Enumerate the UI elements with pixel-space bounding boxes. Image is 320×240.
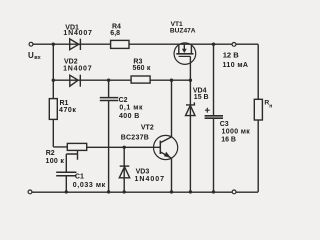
svg-text:12 В: 12 В bbox=[223, 51, 240, 60]
svg-text:C1: C1 bbox=[75, 174, 84, 181]
svg-text:110 мА: 110 мА bbox=[223, 62, 249, 69]
svg-text:VT2: VT2 bbox=[141, 124, 154, 131]
svg-text:вх: вх bbox=[34, 55, 41, 61]
svg-text:1N4007: 1N4007 bbox=[63, 30, 92, 37]
svg-text:C2: C2 bbox=[119, 97, 128, 104]
svg-text:1N4007: 1N4007 bbox=[63, 65, 92, 72]
svg-text:R2: R2 bbox=[46, 150, 55, 157]
svg-text:VD3: VD3 bbox=[136, 169, 150, 176]
svg-text:470к: 470к bbox=[59, 107, 76, 114]
svg-text:16 В: 16 В bbox=[221, 136, 236, 143]
svg-text:100 к: 100 к bbox=[46, 158, 65, 165]
svg-text:15 В: 15 В bbox=[194, 94, 209, 101]
svg-text:BUZ47A: BUZ47A bbox=[170, 27, 196, 34]
svg-text:1000 мк: 1000 мк bbox=[222, 129, 251, 136]
svg-text:BC237B: BC237B bbox=[121, 135, 149, 142]
svg-text:400 В: 400 В bbox=[119, 113, 140, 120]
svg-text:6,8: 6,8 bbox=[110, 30, 120, 37]
svg-text:U: U bbox=[28, 51, 34, 60]
svg-text:560 к: 560 к bbox=[133, 65, 151, 72]
svg-text:1N4007: 1N4007 bbox=[135, 176, 166, 183]
svg-text:R1: R1 bbox=[60, 100, 69, 107]
svg-text:C3: C3 bbox=[220, 121, 229, 128]
svg-text:н: н bbox=[269, 103, 272, 109]
svg-text:0,033 мк: 0,033 мк bbox=[73, 182, 106, 189]
svg-text:0,1 мк: 0,1 мк bbox=[119, 105, 143, 112]
